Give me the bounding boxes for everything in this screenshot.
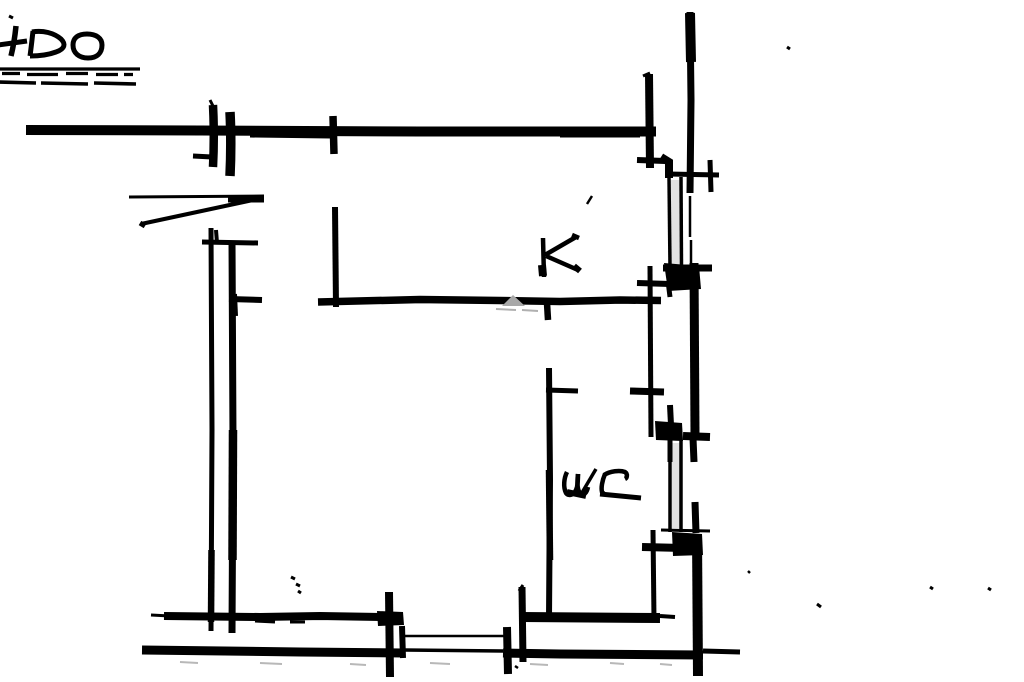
upper window bottom left tick xyxy=(637,283,670,284)
door swing thick right end xyxy=(228,196,264,203)
upper window bottom corner blob xyxy=(664,263,701,291)
lower window inner line dark patch xyxy=(668,440,673,462)
apostrophe speck near K xyxy=(587,196,592,204)
bottom door threshold line xyxy=(402,635,506,638)
title underline solid xyxy=(0,67,140,70)
door swing diagonal leaf xyxy=(141,200,253,224)
interior wall left end tick xyxy=(335,207,336,307)
speck below door jamb xyxy=(515,666,518,668)
gray watermark triangle on interior wall xyxy=(502,295,525,306)
wc left wall bulge xyxy=(549,470,550,560)
upper window inner thin line xyxy=(669,177,670,267)
title underline scratchy second line xyxy=(0,82,136,84)
upper window faint outer frame marks xyxy=(690,196,691,263)
window hash small left tick xyxy=(193,156,212,157)
bottom-right outer wall vertical xyxy=(697,534,698,676)
left exterior wall line 1 xyxy=(211,228,212,631)
left wall top tick xyxy=(202,242,258,243)
step corner xyxy=(661,157,669,178)
bottom line right thick overlay xyxy=(560,654,700,655)
upper window outer thin line xyxy=(679,177,683,267)
window hash mark 1 on top wall xyxy=(209,105,218,167)
gray dashes below interior wall xyxy=(496,309,538,311)
left wall second tick blob xyxy=(233,294,234,316)
label K xyxy=(542,235,580,277)
mid tick on top wall xyxy=(333,116,334,154)
speck lower-right pair xyxy=(930,587,991,590)
thicker top of tall vertical xyxy=(690,13,691,62)
left wall second tick xyxy=(229,299,262,300)
tick below interior wall xyxy=(547,303,548,320)
wc left wall xyxy=(549,368,550,618)
wc right wall xyxy=(653,530,654,620)
wc bottom wall xyxy=(521,617,660,618)
inner right wall vertical (between windows) xyxy=(650,266,651,437)
bottom-left wall under-marks xyxy=(255,621,305,622)
left wall line 1 thick overlay xyxy=(208,550,215,622)
wc underline xyxy=(600,494,641,498)
door swing diagonal end blob xyxy=(140,223,145,226)
label wc xyxy=(564,469,627,496)
wc bottom wall right stub xyxy=(660,616,675,617)
speck group bottom-left of door xyxy=(291,577,301,593)
tick at right end of top wall xyxy=(649,74,650,168)
upper window top tick xyxy=(668,174,719,175)
left exterior wall line 2 xyxy=(232,241,233,633)
left wall line 2 thick overlay xyxy=(228,430,237,560)
bottom door right jamb xyxy=(507,627,508,674)
top exterior wall (thick horizontal) xyxy=(26,130,656,132)
long bottom exterior line right segment xyxy=(503,653,703,655)
window hash flick above xyxy=(210,100,214,108)
lower window outer thin line xyxy=(679,440,683,532)
bottom-left interior wall xyxy=(151,615,170,616)
bottom door left jamb xyxy=(389,592,390,677)
mid-right tick above wc window xyxy=(630,391,664,392)
lower window top right tick xyxy=(683,436,710,437)
lower window bottom left thick tick xyxy=(642,547,683,548)
lower window bottom corner blob xyxy=(672,532,703,556)
interior wall of room K xyxy=(318,300,661,303)
lower window glazing gray fill xyxy=(672,443,680,528)
upper window top cross vertical xyxy=(710,160,711,192)
blob tail xyxy=(668,281,670,297)
left wall top stub xyxy=(216,230,217,243)
scan noise dashes below bottom line xyxy=(180,662,672,665)
title underline dashes row xyxy=(2,74,133,75)
lower window top stub xyxy=(670,405,671,425)
lower window inner thin line xyxy=(668,440,672,532)
speck top-right xyxy=(787,47,790,49)
lower window outer frame lower segment xyxy=(695,502,696,533)
bottom door left stub vertical xyxy=(402,626,403,658)
window hash mark 2 on top wall xyxy=(225,112,235,176)
lower window bottom thin tick xyxy=(661,530,710,531)
outer right wall vertical (between windows) xyxy=(694,263,695,434)
bottom door left jamb blob xyxy=(377,611,404,626)
bottom line mid overlay xyxy=(520,653,560,654)
lower window outer frame upper segment xyxy=(693,438,694,462)
flick at top of right tick xyxy=(519,585,523,591)
wc left wall top tick xyxy=(546,390,578,391)
bottom-left interior wall main xyxy=(164,616,381,617)
long bottom exterior line left segment xyxy=(142,650,404,653)
upper window bottom right tick xyxy=(663,265,712,272)
step tick into upper window xyxy=(637,160,665,161)
lower window top corner blob xyxy=(655,421,683,441)
speck mid-right xyxy=(748,571,750,573)
top wall lower-edge marks xyxy=(250,136,640,137)
door swing horizontal line xyxy=(129,196,264,197)
speck L-mark lower-right xyxy=(817,604,821,607)
tall outer vertical line top-right xyxy=(690,12,691,193)
upper window glazing gray fill xyxy=(671,180,680,265)
flick at top of wall-end tick xyxy=(643,73,650,76)
bottom door right tall tick xyxy=(522,587,523,662)
title text "+DO" top-left (cut off at page edge) xyxy=(0,16,102,58)
long bottom line thin segment across door xyxy=(404,650,503,651)
bottom right tick extension xyxy=(703,651,740,652)
